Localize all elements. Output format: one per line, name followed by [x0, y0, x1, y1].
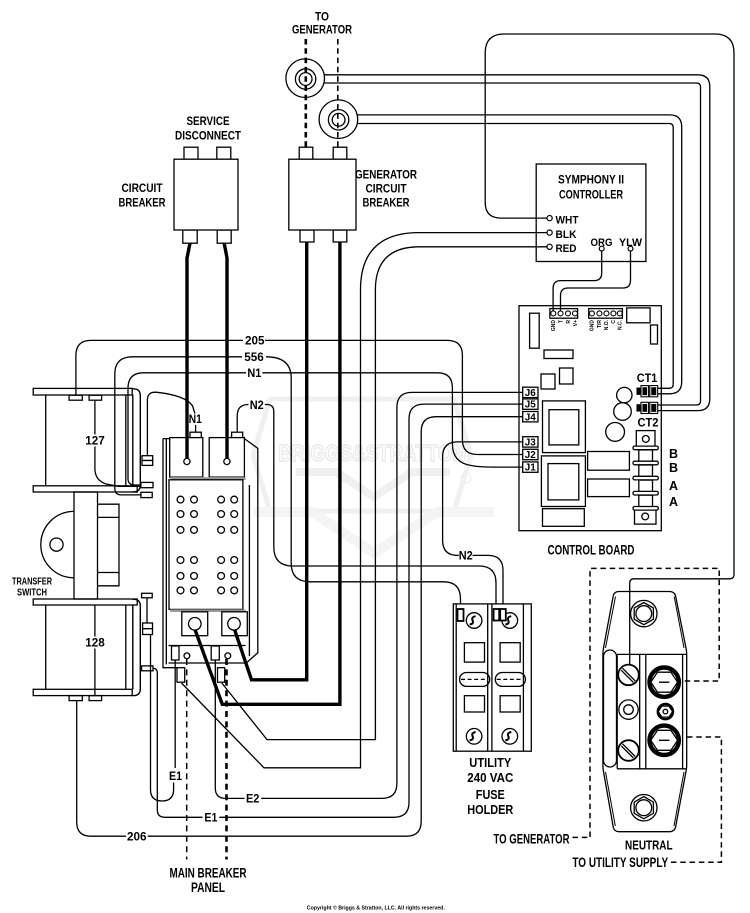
dashed boundary neutral area: [590, 568, 719, 837]
terminal spade 556 (coil 127): [141, 492, 152, 497]
terminal rect below right pole: [211, 646, 219, 660]
terminal tab fuse right 2: [500, 609, 506, 621]
component bottom rect on board: [543, 509, 585, 527]
svg-text:TO GENERATOR: TO GENERATOR: [494, 831, 570, 846]
svg-text:A: A: [669, 495, 678, 509]
svg-text:R: R: [566, 320, 572, 324]
wire WHT big loop to neutral lug screw: [485, 34, 734, 665]
op-box U1 Symphony II controller: [536, 164, 646, 262]
connector CT1 position 2: [637, 402, 658, 413]
component horizontal rect on board: [544, 350, 573, 359]
svg-text:N.C.: N.C.: [618, 319, 624, 330]
svg-text:J2: J2: [525, 450, 537, 461]
wire cable from upper lug through CT1 (inner line): [324, 83, 700, 405]
connector J1: [523, 462, 538, 472]
svg-text:B: B: [669, 447, 678, 461]
wire E1-1 left breaker to coil 128 connector: [174, 660, 176, 768]
control board outline: [519, 306, 661, 531]
pivot semicircle: [41, 511, 74, 577]
capacitor circle a on board: [617, 387, 632, 402]
ring terminal lug (upper): [286, 59, 325, 98]
screw terminal bottom left: [618, 740, 639, 761]
connector terminal strip TS2 (GND T/R N.O. C N.C.): [589, 309, 623, 319]
wire cable from upper lug through CT1 (outer line): [324, 75, 710, 411]
svg-text:J3: J3: [525, 438, 537, 449]
wire E1-2 coil 128 to J5: [153, 668, 203, 817]
breaker bottom rail: [169, 646, 247, 664]
breaker contact grid section: [170, 477, 245, 480]
svg-text:CONTROLLER: CONTROLLER: [559, 190, 624, 202]
wire dashed lead to generator (left): [304, 39, 307, 147]
wire coil 127 internal lead: [95, 400, 141, 486]
wire 205 coil127 to J2: [76, 340, 243, 395]
wire N2-2 right breaker tab to fuse holder right: [237, 405, 248, 433]
component rect d on board: [588, 479, 630, 497]
svg-text:SYMPHONY II: SYMPHONY II: [558, 175, 624, 187]
svg-text:J5: J5: [525, 400, 537, 411]
svg-text:T/R: T/R: [597, 320, 603, 328]
terminal block CT2: [635, 431, 657, 524]
connector J4: [523, 412, 538, 422]
fuse module right: [492, 604, 525, 751]
fuse module left: [456, 604, 490, 751]
svg-text:J1: J1: [525, 463, 537, 474]
screw terminal top (WHT): [618, 665, 639, 686]
svg-text:BREAKER: BREAKER: [119, 198, 167, 210]
wire ORG to control board terminal: [553, 251, 602, 311]
capacitor circle c on board: [606, 423, 625, 442]
svg-text:A: A: [669, 479, 678, 493]
connector terminal strip TS1 (GND T R V+): [550, 309, 578, 319]
connector inline (E1 lead): [146, 598, 148, 623]
connector J2: [523, 449, 538, 459]
terminal CT2 pos 3: [633, 476, 658, 480]
svg-text:J6: J6: [525, 388, 537, 399]
svg-text:NEUTRAL: NEUTRAL: [625, 838, 673, 853]
wire coil 128 internal lead: [94, 605, 96, 696]
dashed lead left to panel label: [186, 659, 188, 860]
circuit breaker CB2 (generator): [289, 147, 356, 242]
svg-text:TO UTILITY SUPPLY: TO UTILITY SUPPLY: [572, 855, 668, 870]
connector J3: [523, 437, 538, 447]
wire thick CB1 right to breaker N2 terminal: [224, 243, 227, 458]
svg-text:N1: N1: [247, 368, 262, 380]
connector CT1 position 1: [637, 386, 658, 397]
wire N2-1 J3 to fuse holder right 2: [443, 442, 523, 556]
terminal tab fuse left: [458, 609, 464, 621]
breaker pole lug left: [182, 612, 208, 636]
terminal CT2 pos 4: [633, 491, 658, 495]
svg-text:CT2: CT2: [638, 418, 659, 430]
svg-text:240 VAC: 240 VAC: [467, 771, 513, 785]
component small rect b on board: [560, 368, 574, 384]
terminal CT2 pos 2: [633, 461, 658, 465]
wire N1-2 connector to left breaker tab: [147, 392, 195, 456]
tab below panel left: [177, 668, 185, 683]
terminal spade E1 (coil 128 top): [142, 593, 153, 598]
svg-text:205: 205: [245, 336, 265, 348]
wire YLW to control board terminal: [561, 251, 631, 311]
component left vertical rect on board: [530, 313, 540, 348]
svg-text:206: 206: [127, 831, 147, 843]
breaker pole lug right: [222, 612, 248, 636]
pin WHT: [547, 216, 552, 221]
svg-text:E1: E1: [169, 771, 183, 783]
svg-text:GND: GND: [590, 320, 596, 332]
svg-text:MAIN BREAKER: MAIN BREAKER: [170, 866, 247, 881]
svg-text:HOLDER: HOLDER: [467, 803, 513, 817]
wire 206 coil128 to J4: [77, 701, 126, 837]
svg-text:N2: N2: [459, 550, 473, 562]
wire 556 coil127 to fuse holder left: [115, 357, 242, 495]
wire thick CB2 right down to left breaker pole circle: [195, 242, 340, 704]
ring terminal lug (lower): [319, 100, 358, 139]
hex nut middle: [658, 704, 673, 719]
svg-text:127: 127: [85, 436, 105, 448]
watermark Briggs & Stratton logo: [253, 399, 494, 553]
svg-text:B: B: [669, 461, 678, 475]
svg-text:UTILITY: UTILITY: [469, 756, 512, 770]
dashed lead right to panel label: [225, 659, 228, 860]
pin N2 terminal circle: [224, 458, 230, 464]
pin N1 terminal circle: [184, 458, 190, 464]
hex bolt utility terminal: [650, 726, 679, 755]
svg-text:J4: J4: [525, 412, 537, 423]
svg-text:BLK: BLK: [556, 229, 577, 241]
connector J5: [523, 399, 538, 409]
neutral lug block outline: [603, 592, 687, 832]
hex bolt generator terminal: [650, 668, 679, 697]
svg-text:SERVICE: SERVICE: [187, 116, 230, 128]
pin below right pole: [225, 653, 231, 659]
capacitor circle b on board: [614, 403, 632, 421]
svg-text:E1: E1: [204, 812, 218, 824]
svg-text:RED: RED: [556, 243, 577, 255]
component rect c on board: [588, 452, 630, 471]
svg-text:SWITCH: SWITCH: [17, 588, 47, 599]
tab below panel right: [218, 668, 225, 683]
svg-text:CIRCUIT: CIRCUIT: [122, 183, 163, 195]
terminal spade E1-2 (coil 128 right): [142, 666, 153, 671]
svg-text:BREAKER: BREAKER: [363, 198, 411, 210]
connector J6: [523, 387, 538, 397]
bolt hole top: [631, 600, 657, 626]
wire RED controller to right breaker lower tab: [222, 247, 547, 740]
bolt hole bottom: [631, 795, 657, 821]
wire E2 right breaker to J6: [215, 660, 244, 798]
svg-text:556: 556: [244, 352, 264, 364]
connector inline (N1 lead): [142, 456, 153, 461]
svg-text:WHT: WHT: [556, 214, 579, 226]
svg-text:CIRCUIT: CIRCUIT: [366, 184, 407, 196]
circuit breaker CB1 (service disconnect): [174, 147, 238, 243]
component small right rect on board: [651, 325, 658, 344]
terminal spade N1 (coil 127): [141, 482, 153, 487]
solenoid coil 128 assembly: [33, 599, 140, 701]
terminal tab fuse right 1: [494, 609, 500, 621]
svg-text:N.O.: N.O.: [604, 319, 610, 330]
svg-text:T: T: [558, 320, 564, 323]
wire N1 coil127 to J1: [128, 373, 246, 485]
relay K2 on board: [541, 456, 585, 507]
svg-text:128: 128: [85, 638, 105, 650]
solenoid coil 127 assembly: [33, 388, 140, 492]
svg-text:GENERATOR: GENERATOR: [355, 170, 418, 182]
svg-text:V+: V+: [573, 320, 579, 326]
svg-text:Copyright © Briggs & Stratton,: Copyright © Briggs & Stratton, LLC. All …: [307, 905, 445, 912]
svg-text:GND: GND: [551, 320, 557, 332]
fuse holder body: [453, 604, 531, 751]
svg-text:CONTROL BOARD: CONTROL BOARD: [548, 543, 635, 558]
svg-text:C: C: [611, 320, 617, 324]
breaker 3D side face: [244, 439, 257, 664]
armature bar: [74, 492, 119, 599]
svg-text:DISCONNECT: DISCONNECT: [175, 131, 241, 143]
wire dashed lead to generator (right): [337, 39, 339, 147]
svg-text:FUSE: FUSE: [476, 788, 505, 802]
breaker top terminal box right: [232, 432, 243, 438]
svg-text:E2: E2: [246, 794, 260, 806]
svg-text:TO: TO: [315, 12, 329, 24]
pin below left pole: [184, 653, 190, 659]
breaker top terminal box left: [190, 432, 201, 438]
svg-text:GENERATOR: GENERATOR: [292, 25, 353, 37]
pin BLK: [547, 230, 552, 235]
svg-text:CT1: CT1: [637, 373, 658, 385]
terminal rect below left pole: [172, 646, 180, 660]
wire thick CB2 left down to right breaker pole circle: [235, 242, 307, 680]
wire cable from lower lug through CT1 (outer line): [358, 115, 682, 394]
washer middle left: [619, 700, 638, 719]
component small rect a on board: [541, 374, 555, 389]
main breaker panel edge: [163, 439, 177, 668]
svg-text:TRANSFER: TRANSFER: [12, 577, 53, 588]
wire cable from lower lug through CT1 (inner line): [358, 124, 674, 389]
pin RED: [547, 244, 552, 249]
terminal CT2 pos 1: [633, 446, 658, 450]
wire thick CB1 left to breaker N1 terminal: [187, 243, 190, 458]
svg-text:N2: N2: [250, 400, 264, 412]
contact point circles: [177, 496, 238, 594]
svg-text:PANEL: PANEL: [191, 880, 225, 895]
svg-text:N1: N1: [189, 414, 203, 426]
component top-right rect on board: [627, 308, 650, 323]
relay K1 on board: [543, 401, 586, 453]
wire BLK controller to left breaker lower tab: [182, 233, 548, 768]
